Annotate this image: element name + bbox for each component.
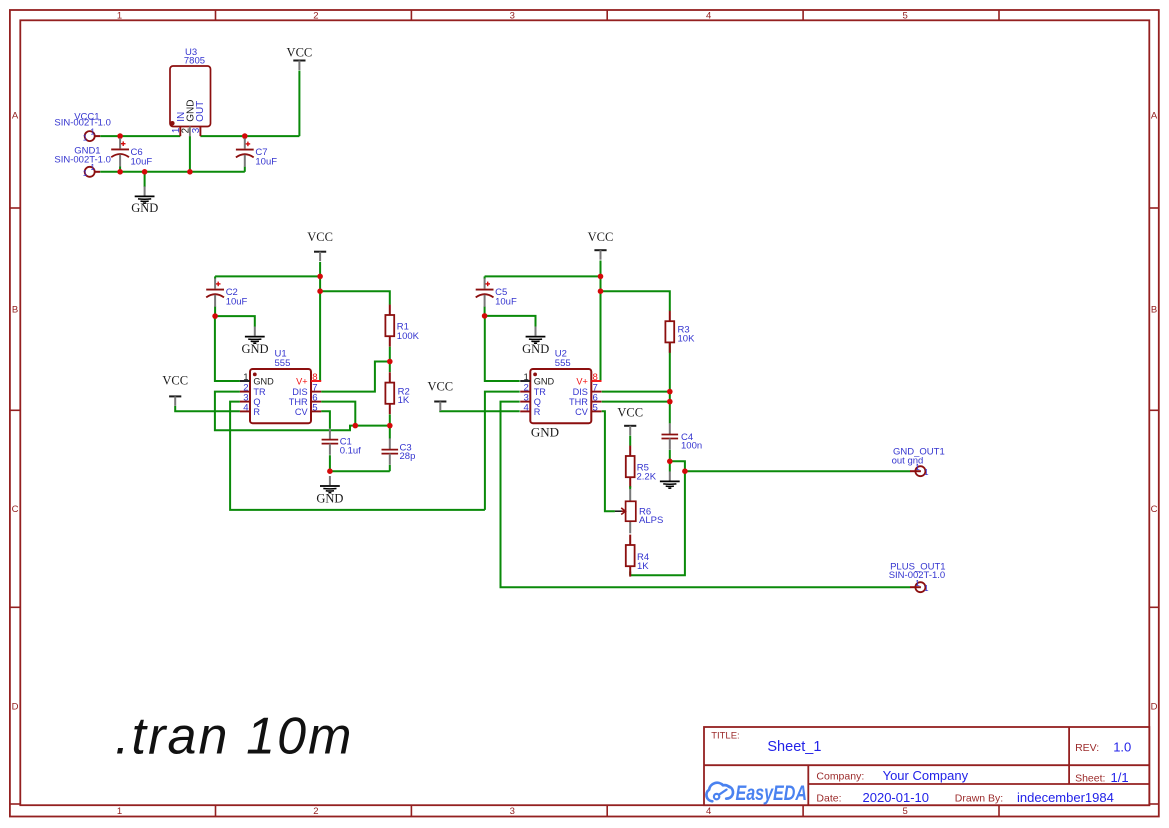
- ground symbol near C5: [522, 327, 549, 356]
- svg-text:VCC: VCC: [617, 406, 643, 420]
- wire U1 THR down to node: [321, 402, 355, 426]
- svg-text:SIN-002T-1.0: SIN-002T-1.0: [889, 570, 946, 581]
- VCC flag above U1: [307, 230, 333, 261]
- wire C5 junction to U2 pin1: [485, 316, 520, 381]
- wire C4 bottom to gnd node: [669, 450, 671, 462]
- wire C2 top stub: [214, 276, 216, 279]
- svg-text:10uF: 10uF: [226, 297, 248, 308]
- wire U2 TR from U1 Q: [485, 392, 520, 510]
- svg-text:GND: GND: [522, 342, 549, 356]
- junction U3 pin2: [187, 169, 193, 175]
- wire VCC to C5 row: [485, 275, 601, 277]
- connector GND1 SIN-002T-1.0: [54, 146, 111, 178]
- svg-text:1: 1: [83, 133, 88, 142]
- svg-text:Your Company: Your Company: [883, 768, 969, 783]
- wire C7 top stub: [244, 136, 246, 139]
- svg-text:REV:: REV:: [1075, 742, 1099, 754]
- svg-text:1K: 1K: [398, 395, 410, 406]
- svg-text:THR: THR: [289, 397, 308, 407]
- wire R3 bottom to DIS node: [669, 343, 671, 392]
- svg-text:Company:: Company:: [816, 770, 864, 782]
- wire R4 bottom stub: [629, 572, 631, 576]
- svg-text:5: 5: [312, 403, 317, 414]
- svg-text:A: A: [12, 110, 19, 121]
- EasyEDA logo: [706, 782, 807, 805]
- svg-text:1: 1: [117, 806, 122, 817]
- VCC flag left of U2: [427, 379, 453, 411]
- svg-text:CV: CV: [295, 407, 309, 417]
- junction C1/GND: [327, 468, 333, 474]
- svg-text:R: R: [253, 407, 260, 417]
- wire U2 VCC flag to pin4: [440, 410, 519, 413]
- resistor R2 1K: [385, 372, 409, 414]
- svg-text:10uF: 10uF: [255, 157, 277, 168]
- VCC flag above U2: [588, 230, 614, 260]
- svg-text:THR: THR: [569, 397, 588, 407]
- wire C3 top stub: [389, 426, 391, 439]
- svg-text:VCC: VCC: [427, 379, 453, 393]
- wire C5 junction to GND: [485, 316, 536, 327]
- resistor R3 10K: [665, 311, 695, 353]
- junction gnd stem: [142, 169, 148, 175]
- svg-text:2.2K: 2.2K: [637, 472, 657, 483]
- svg-text:8: 8: [312, 372, 317, 383]
- svg-text:B: B: [12, 305, 18, 316]
- potentiometer R6 ALPS: [615, 486, 663, 533]
- wire THR node to R2 node: [355, 425, 390, 427]
- svg-text:100K: 100K: [397, 331, 420, 342]
- svg-text:555: 555: [275, 358, 291, 369]
- svg-text:TR: TR: [253, 387, 266, 397]
- wire C6 top stub: [119, 136, 121, 139]
- svg-text:3: 3: [510, 806, 515, 817]
- wire C2 junction to GND: [215, 316, 255, 327]
- svg-text:DIS: DIS: [292, 387, 307, 397]
- wire THR node down to C4: [669, 402, 671, 424]
- svg-text:SIN-002T-1.0: SIN-002T-1.0: [54, 155, 111, 166]
- svg-text:GND: GND: [241, 342, 268, 356]
- wire DIS node to THR node: [669, 392, 671, 402]
- svg-text:5: 5: [593, 403, 598, 414]
- svg-text:4: 4: [243, 403, 249, 414]
- svg-text:4: 4: [706, 11, 711, 22]
- wire C5 top stub: [484, 276, 486, 279]
- title block frame: [704, 727, 1149, 805]
- svg-text:GND: GND: [131, 201, 158, 215]
- wire VCC down from power flag: [298, 71, 300, 137]
- wire C4 gnd stem: [669, 461, 671, 471]
- wire U1 VCC flag to pin4: [175, 406, 240, 411]
- svg-text:2: 2: [180, 128, 191, 133]
- junction VCC/R3: [598, 288, 604, 294]
- wire R2 bottom to node: [389, 414, 391, 425]
- svg-text:GND: GND: [253, 377, 274, 387]
- svg-text:TR: TR: [534, 387, 547, 397]
- capacitor C6 10uF (polarized): [111, 138, 152, 167]
- junction VCC/C2: [317, 274, 323, 280]
- capacitor C1 0.1uf: [322, 428, 362, 456]
- resistor R1 100K: [385, 305, 419, 347]
- ground symbol near C4: [660, 471, 680, 488]
- resistor R5 2.2K: [626, 446, 657, 488]
- svg-text:Drawn By:: Drawn By:: [955, 793, 1003, 805]
- VCC flag above R5: [617, 406, 643, 436]
- VCC flag power: [287, 46, 313, 70]
- junction C6 bottom: [117, 169, 123, 175]
- wire C2 bottom to junction: [214, 306, 216, 316]
- svg-text:1: 1: [117, 11, 122, 22]
- wire gnd node to out node: [670, 461, 685, 471]
- wire VCC column to U2 V+: [600, 261, 602, 382]
- svg-text:GND: GND: [531, 425, 559, 440]
- svg-text:GND: GND: [534, 377, 555, 387]
- wire VCC flag to R5: [629, 436, 631, 446]
- svg-text:SIN-002T-1.0: SIN-002T-1.0: [54, 118, 111, 129]
- wire VCC row to R3: [601, 291, 670, 311]
- junction C5 bottom: [482, 313, 488, 319]
- capacitor C4 100n: [662, 423, 703, 451]
- wire U1 TR loop to THR node: [215, 392, 355, 431]
- svg-text:Date:: Date:: [816, 792, 841, 804]
- svg-text:7805: 7805: [184, 56, 205, 67]
- wire C3 bottom stub: [389, 465, 391, 471]
- capacitor C5 10uF (polarized): [476, 278, 517, 307]
- svg-text:10uF: 10uF: [131, 157, 153, 168]
- wire U2 THR to node: [602, 401, 670, 403]
- svg-text:D: D: [12, 701, 19, 712]
- junction VCC/C5: [598, 274, 604, 280]
- svg-text:1/1: 1/1: [1111, 770, 1129, 785]
- wire VCC column to U1 V+: [319, 262, 321, 381]
- svg-text:1: 1: [924, 468, 929, 477]
- connector GND_OUT1 out gnd: [892, 447, 945, 477]
- ground symbol power: [131, 186, 158, 215]
- svg-text:indecember1984: indecember1984: [1017, 790, 1114, 805]
- svg-text:Sheet:: Sheet:: [1075, 772, 1105, 784]
- svg-text:3: 3: [191, 127, 202, 133]
- svg-text:V+: V+: [296, 377, 308, 387]
- svg-text:.tran 10m: .tran 10m: [115, 708, 354, 766]
- svg-text:100n: 100n: [681, 441, 702, 452]
- wire R2 top stub: [389, 362, 391, 373]
- resistor R4 1K: [626, 535, 649, 577]
- svg-text:5: 5: [902, 806, 907, 817]
- svg-text:4: 4: [524, 403, 530, 414]
- svg-text:8: 8: [593, 372, 598, 383]
- junction C2 bottom: [212, 313, 218, 319]
- wire GND net bottom rail: [100, 171, 245, 173]
- svg-text:1K: 1K: [637, 561, 649, 572]
- capacitor C2 10uF (polarized): [206, 278, 247, 307]
- svg-text:C: C: [1151, 504, 1158, 515]
- svg-text:GND: GND: [316, 491, 343, 505]
- svg-text:1: 1: [924, 584, 929, 593]
- svg-text:0.1uf: 0.1uf: [340, 445, 361, 456]
- capacitor C7 10uF (polarized): [236, 138, 277, 167]
- junction C6 top: [117, 133, 123, 139]
- capacitor C3 28p: [382, 438, 416, 464]
- wire out node down to R4 bottom: [630, 471, 685, 575]
- svg-text:D: D: [1151, 701, 1158, 712]
- wire U1 CV to C1: [321, 411, 330, 428]
- wire C6 bottom stub: [119, 166, 121, 171]
- junction out gnd node: [682, 468, 688, 474]
- svg-text:3: 3: [510, 11, 515, 22]
- wire U3 pin2 to gnd rail: [189, 136, 191, 172]
- wire GND stem power: [144, 172, 146, 187]
- regulator U3 7805: [170, 47, 211, 136]
- svg-text:Q: Q: [534, 397, 541, 407]
- wire C7 bottom stub: [244, 167, 246, 172]
- svg-text:28p: 28p: [400, 451, 416, 462]
- svg-text:5: 5: [902, 11, 907, 22]
- connector PLUS_OUT1 SIN-002T-1.0: [889, 562, 946, 593]
- svg-text:DIS: DIS: [573, 387, 588, 397]
- svg-text:1.0: 1.0: [1113, 740, 1131, 755]
- svg-text:Q: Q: [253, 397, 260, 407]
- ground symbol near C2: [241, 327, 268, 356]
- junction THR tap: [667, 399, 673, 405]
- svg-text:VCC: VCC: [162, 374, 188, 388]
- svg-text:10K: 10K: [678, 334, 696, 345]
- svg-text:1: 1: [524, 372, 529, 383]
- svg-text:V+: V+: [576, 377, 588, 387]
- wire VOUT net top rail right: [200, 135, 299, 137]
- wire R1 bottom to node: [389, 347, 391, 362]
- VCC flag left of U1: [162, 374, 188, 406]
- svg-text:out gnd: out gnd: [892, 455, 924, 466]
- connector VCC1 SIN-002T-1.0: [54, 111, 111, 142]
- svg-text:TITLE:: TITLE:: [711, 730, 740, 741]
- svg-text:ALPS: ALPS: [639, 515, 663, 526]
- svg-text:2: 2: [313, 11, 318, 22]
- svg-text:10uF: 10uF: [495, 297, 517, 308]
- svg-text:EasyEDA: EasyEDA: [736, 782, 808, 805]
- svg-text:VCC: VCC: [588, 230, 614, 244]
- wire C1 bottom to gnd node: [329, 455, 331, 471]
- svg-text:1: 1: [83, 169, 88, 178]
- wire U2 DIS to node: [602, 391, 670, 393]
- wire VIN net top rail left: [100, 135, 180, 137]
- svg-text:R: R: [534, 407, 541, 417]
- wire U2 CV to R6 wiper: [602, 411, 615, 511]
- svg-text:VCC: VCC: [287, 46, 313, 60]
- svg-text:A: A: [1151, 110, 1158, 121]
- svg-text:B: B: [1151, 305, 1157, 316]
- junction R2/C3: [387, 423, 393, 429]
- junction C4/GND: [667, 459, 673, 465]
- junction THR/TR: [353, 423, 359, 429]
- wire out node to GND_OUT1: [685, 470, 910, 472]
- svg-text:CV: CV: [575, 407, 589, 417]
- junction R1/R2/DIS: [387, 359, 393, 365]
- junction VCC/R1: [317, 288, 323, 294]
- svg-text:2: 2: [313, 806, 318, 817]
- svg-text:Sheet_1: Sheet_1: [767, 739, 821, 755]
- svg-text:1: 1: [243, 372, 248, 383]
- svg-text:2020-01-10: 2020-01-10: [863, 790, 930, 805]
- wire C2 junction to U1 pin1: [215, 316, 240, 381]
- junction R3/DIS: [667, 389, 673, 395]
- wire VCC to C2 row: [215, 275, 320, 277]
- svg-text:OUT: OUT: [195, 101, 206, 122]
- ground symbol near C1: [316, 476, 343, 505]
- svg-text:555: 555: [555, 358, 571, 369]
- timer IC U1 555: [240, 348, 321, 423]
- wire U2 Q to PLUS_OUT1: [501, 402, 911, 588]
- junction C7 top: [242, 133, 248, 139]
- wire C1 node to C3: [330, 470, 390, 472]
- svg-text:VCC: VCC: [307, 230, 333, 244]
- wire VCC row to R1: [320, 291, 390, 305]
- wire U1 Q to U2 TR: [230, 402, 485, 510]
- timer IC U2 555: [520, 348, 601, 423]
- svg-text:C: C: [12, 504, 19, 515]
- svg-text:1: 1: [90, 128, 95, 137]
- svg-text:4: 4: [706, 806, 711, 817]
- wire C5 bottom to junction: [484, 306, 486, 316]
- wire U1 DIS to R1/R2 node: [321, 362, 390, 392]
